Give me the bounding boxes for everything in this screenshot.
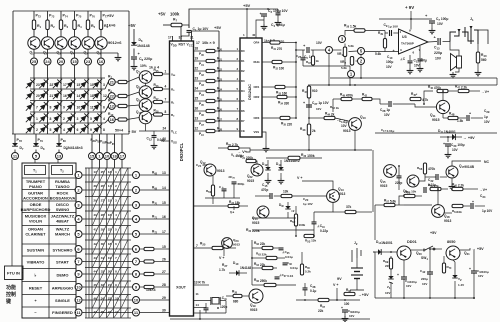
svg-text:9013: 9013 [217,169,225,173]
svg-text:V +: V + [333,283,339,287]
svg-text:1.4V: 1.4V [458,283,464,287]
svg-text:1: 1 [36,117,38,121]
node R8 [133,271,140,278]
transistor Q14 9015 left [257,206,269,218]
diode matrix r1c2 [37,77,51,91]
transistor Q13 9013 [327,190,340,203]
svg-text:ORGAN: ORGAN [28,226,43,231]
wire top +5V bus [13,10,129,12]
svg-text:VIOLIN: VIOLIN [29,219,42,224]
diode matrix r4c2 [37,111,51,125]
wire matrix bottom bus [12,133,129,135]
svg-text:+5V: +5V [243,3,251,8]
svg-text:1: 1 [165,70,167,74]
resistor R44 2k [324,116,335,119]
resistor R5 1k [86,20,89,30]
svg-text:24: 24 [195,87,199,91]
svg-text:12: 12 [76,297,81,302]
resistor ladder OR2 330 [277,95,287,98]
wire to C8 input [384,32,386,34]
wire +5V down [133,29,135,42]
svg-text:4BEAT: 4BEAT [56,219,69,224]
switch SW1 [411,249,422,251]
transistor Q20 regulator [397,246,411,260]
svg-text:MUSICBOX: MUSICBOX [25,213,47,218]
node 21 [108,79,115,86]
transistor Q18 9013 [432,205,445,218]
wire long bus y150 [250,149,372,151]
wire column 3 [60,11,62,37]
svg-text:功能: 功能 [6,284,16,291]
svg-text:10V: 10V [385,291,390,295]
resistor R28 680 [233,294,242,297]
svg-text:8: 8 [50,106,52,110]
resistor R3 1k [59,20,62,30]
resistor R6 1k [99,20,102,30]
diode matrix r2c5 [78,88,92,102]
node 25 [31,58,38,65]
svg-text:8: 8 [50,117,52,121]
svg-text:+ 5V: + 5V [128,129,137,134]
key row wires through grid [83,174,131,176]
svg-text:0.04μ: 0.04μ [290,266,298,270]
wire Q13 emitter down [314,202,333,212]
svg-text:3: 3 [103,83,105,87]
diode matrix r5c6 [91,122,105,136]
svg-text:CLARINET: CLARINET [25,232,46,237]
wire top-right bus [379,18,412,20]
node L6 [75,246,82,253]
svg-text:910: 910 [312,89,318,93]
svg-text:680: 680 [233,300,239,304]
resistor collector Q9 [151,101,154,103]
wire left rail to FTU [11,160,13,267]
svg-text:9: 9 [63,106,65,110]
resistor R4 1k [73,20,76,30]
capacitor C25 small [301,57,306,59]
node L2 [75,187,82,194]
wire matrix row 4 to node [105,120,108,124]
resistor R65 5.2k vertical [300,264,303,275]
wire Q8 collector to IC [163,88,170,90]
svg-text:1N4148×2: 1N4148×2 [284,159,300,163]
wire Q9 base from matrix [127,105,139,106]
svg-text:8: 8 [103,128,105,132]
caps below U3 [409,55,411,60]
svg-text:8: 8 [165,110,167,114]
resistor R59 67k [430,187,441,190]
wire VCC pin up [192,31,220,41]
svg-text:9015: 9015 [252,221,260,225]
diode matrix r1c1 [24,77,38,91]
resistor R53 [304,234,314,237]
svg-text:10V: 10V [316,107,321,111]
svg-text:470p: 470p [261,188,268,192]
node R5 [133,231,140,238]
svg-text:R62 22k: R62 22k [254,241,265,246]
svg-text:7: 7 [36,106,38,110]
svg-text:30: 30 [163,137,167,141]
wire P81 down [91,134,93,153]
resistor R52 100k vertical [294,214,297,226]
svg-text:9015: 9015 [432,118,440,122]
wire FTU rail [22,272,23,274]
ground Q17 [451,184,453,187]
svg-text:10k × 9: 10k × 9 [202,41,215,45]
capacitor C4 0.04u [268,8,278,10]
wire table to node [75,273,76,275]
function table outline [22,163,76,318]
transistor Q9 [139,99,152,112]
resistor R38 1.5k [354,29,365,32]
wire right edge vertical [496,78,498,85]
svg-text:→V+: →V+ [481,90,489,94]
resistor pull-up 9 [206,129,215,132]
svg-text:RHG: RHG [254,60,260,64]
wire jack to right edge [478,30,488,44]
svg-text:R31 270: R31 270 [271,46,282,51]
capacitor C1 1u 10V [187,30,192,32]
diode matrix r4c5 [78,111,92,125]
svg-text:17: 17 [120,153,125,158]
wire node to IC [140,218,170,220]
IC U1 pin P02 [194,70,207,72]
capacitor C5 1u coupling [296,49,305,51]
resistor R51 13k [281,194,292,197]
wire Q7 collector to IC [163,73,170,75]
wire node3 up to bus [345,31,354,36]
svg-text:1μ: 1μ [484,115,488,119]
svg-text:6: 6 [103,106,105,110]
node 4 [326,47,333,54]
resistor R54 37k [333,211,345,213]
svg-text:ACCORDION: ACCORDION [23,196,48,201]
transistor Q3 9012 [55,37,67,49]
svg-text:0.04μ: 0.04μ [285,255,293,259]
svg-text:13k: 13k [283,190,289,194]
transistor Q10 [139,111,152,124]
wire mesh BL extras [252,229,314,231]
capacitor C8 input [385,31,388,34]
svg-text:1.5k: 1.5k [457,119,463,123]
svg-text:24: 24 [45,59,50,64]
svg-text:1.7k: 1.7k [219,268,225,272]
IC pin 24 VLC [157,130,170,132]
diode matrix r1c5 [78,77,92,91]
svg-text:+: + [443,142,445,146]
IC U1 pin P03 [194,80,207,82]
svg-text:100k: 100k [299,223,306,227]
node R11 [133,309,140,316]
resistor R24 18k [228,204,239,207]
resistor R39 5.6k vertical [384,33,386,39]
svg-text:键: 键 [5,298,12,305]
wire bus y133 [375,132,497,134]
diode matrix r4c3 [51,111,65,125]
diode matrix r3c4 [64,99,78,113]
IC U1 pin P07 [194,120,207,122]
svg-text:120p: 120p [220,305,227,309]
wire node to resistor [115,105,118,107]
node L5 [75,231,82,238]
wire node to IC [140,286,144,288]
svg-text:⊥C: ⊥C [400,57,406,61]
svg-text:23: 23 [86,59,91,64]
ground emitter bus [117,55,119,58]
svg-text:13 R 7k: 13 R 7k [194,281,205,285]
wire node to resistor [115,81,118,83]
zener Z1 [388,276,393,279]
wire node to IC [140,273,144,275]
ground speaker [452,72,454,75]
table row lines [22,177,76,179]
diode matrix r4c6 [91,111,105,125]
svg-text:6: 6 [77,128,79,132]
wire table to node [75,233,76,235]
resistor R43 2k vertical [307,124,310,135]
svg-text:220: 220 [385,264,390,268]
wires bank to IC2 [236,50,240,52]
svg-text:+: + [341,306,343,310]
svg-text:SUSTAIN: SUSTAIN [27,247,44,252]
svg-text:24: 24 [163,127,167,131]
svg-text:D2: D2 [241,69,245,73]
svg-text:18: 18 [112,153,117,158]
svg-text:SYNCHRO: SYNCHRO [52,247,72,252]
svg-text:START: START [56,260,70,265]
svg-text:10V: 10V [384,113,391,117]
resistor R1 1k [32,20,35,30]
svg-text:D3: D3 [241,79,245,83]
node 22 [108,93,115,100]
resistor R56 470k vertical [423,163,426,174]
resistor R9 [118,104,127,107]
resistor ladder OR3 220 [280,116,290,119]
resistor R2 1k [46,20,49,30]
svg-text:9013: 9013 [233,243,240,247]
svg-text:20: 20 [36,94,40,98]
transistor Q11 9015 [436,100,449,113]
svg-text:680p: 680p [238,182,245,186]
svg-text:D1: D1 [241,59,245,63]
wire node to IC [140,299,170,301]
ground C6 [133,64,135,67]
svg-text:R44 2k: R44 2k [325,112,335,117]
wire node5 to op-amp [365,51,386,53]
svg-text:18: 18 [195,47,199,51]
wires N bus [252,247,262,249]
svg-text:5.2k: 5.2k [305,270,311,274]
node 24 [44,58,51,65]
svg-text:9013: 9013 [338,192,346,196]
diode matrix r3c1 [24,99,38,113]
svg-text:R47 2.2k: R47 2.2k [455,85,467,90]
svg-text:+: + [303,101,305,105]
svg-text:17: 17 [162,230,166,234]
svg-text:13: 13 [162,171,166,175]
svg-text:9015: 9015 [380,184,388,188]
resistor key row 6 [144,247,154,250]
VR1 wiper [349,50,358,53]
wire down [58,134,60,143]
svg-text:4: 4 [165,85,167,89]
svg-text:×2: ×2 [291,209,295,213]
transistor Q4 9012 [68,37,80,49]
wire P83 down [106,134,108,153]
IC U2 melody chip body [240,38,262,137]
svg-text:21: 21 [110,79,115,84]
resistor R46 470k feedback [437,89,448,92]
transistor Q15 9015 [384,165,397,178]
wire table to node [75,312,76,314]
transistor Q8 [139,86,152,99]
diode matrix r2c6 [91,88,105,102]
IC U1 pin P10 [194,130,207,132]
svg-text:100: 100 [344,302,350,306]
svg-text:V1 4MHz: V1 4MHz [231,153,244,158]
wire RST pin up [180,25,182,41]
svg-text:4: 4 [63,128,65,132]
resistor pull-up 3 [206,69,215,72]
svg-text:11: 11 [196,292,200,296]
svg-text:470k: 470k [428,167,435,171]
resistor R69 220 [390,256,392,258]
svg-text:12: 12 [103,94,107,98]
svg-text:NC: NC [484,160,489,164]
resistor pull-up 2 [206,59,215,62]
svg-text:♭: ♭ [35,272,37,277]
svg-text:OR1: OR1 [254,85,260,89]
diode matrix r2c3 [51,88,65,102]
wire node to IC [140,261,144,263]
wire node to IC [140,312,170,314]
svg-text:RESET: RESET [29,285,43,290]
vertical bus x373 [372,150,374,212]
wire node2 to VR2 [356,60,358,62]
svg-text:16: 16 [162,215,166,219]
svg-text:9V: 9V [337,277,342,281]
transistor Q19 9015 big [249,289,263,303]
wire Q8 base from matrix [127,92,139,96]
transistor Q16 [407,175,419,187]
svg-text:10k×4: 10k×4 [146,288,156,292]
resistor R60 2.2k [452,187,463,190]
svg-text:0.22μ: 0.22μ [320,229,328,233]
svg-text:CE: CE [241,129,245,133]
svg-text:ARPEGGIO: ARPEGGIO [52,285,74,290]
node R10 [133,297,140,304]
IC U1 pin P04 [194,90,207,92]
node 5 [33,153,40,160]
FTU IN box [5,266,24,280]
svg-text:FTU IN: FTU IN [7,271,20,276]
diode matrix r1c3 [51,77,65,91]
svg-text:→ +9V: → +9V [463,136,475,140]
output capacitor C13 220u [428,41,437,44]
svg-text:10V: 10V [406,284,411,288]
wire table to node [75,261,76,263]
svg-text:+5V: +5V [128,23,136,28]
diode matrix r4c4 [64,111,78,125]
svg-text:RUMBA: RUMBA [55,179,70,184]
svg-text:SWING: SWING [56,207,70,212]
wire Q10 collector to IC [163,114,170,116]
svg-text:D6: D6 [241,109,245,113]
svg-text:R49 470k: R49 470k [340,93,353,98]
resistor R40 560 [477,44,479,52]
svg-text:20: 20 [59,59,64,64]
resistor pull-up 7 [206,109,215,112]
wire P82 down [99,134,101,153]
zener V2 1.4V [452,275,457,278]
svg-text:10: 10 [77,106,81,110]
svg-text:28: 28 [162,283,166,287]
svg-text:HARPSICHORD: HARPSICHORD [21,207,51,212]
diode D9 [56,143,62,146]
svg-text:+ 9V: + 9V [405,5,414,10]
IC U1 microcontroller body [170,41,194,316]
node 10 [104,153,111,160]
wire to bus [215,50,236,52]
wire column 2 [47,11,49,37]
node 5 [358,48,365,55]
wire table to node [75,286,76,288]
svg-text:10V: 10V [435,57,442,61]
wire Q emitters to +5V rail [145,83,147,85]
svg-text:17: 17 [196,41,200,45]
svg-text:TRUMPET: TRUMPET [26,179,46,184]
svg-text:10: 10 [76,284,81,289]
svg-text:22: 22 [50,83,54,87]
svg-text:0.1μ: 0.1μ [310,289,316,293]
svg-text:560: 560 [481,58,487,62]
node L9 [75,271,82,278]
svg-text:VSS: VSS [254,130,260,134]
svg-text:1N4148×3: 1N4148×3 [66,146,83,150]
svg-text:22: 22 [195,67,199,71]
wire local bus y198 [205,197,240,199]
diode matrix r3c5 [78,99,92,113]
svg-text:OR2: OR2 [254,95,260,99]
svg-text:220μ: 220μ [421,277,428,281]
svg-text:23: 23 [195,77,199,81]
wire to bus [215,70,236,72]
node 12 [108,103,115,110]
ground C12 [153,143,155,146]
svg-text:17: 17 [63,83,67,87]
svg-text:ROCK: ROCK [57,190,69,195]
wire top bus to C1 [189,9,268,28]
svg-text:→+5V: →+5V [358,293,369,297]
svg-text:15: 15 [195,97,199,101]
node 16 [98,58,105,65]
diode matrix r2c4 [64,88,78,102]
svg-text:OR4: OR4 [254,41,260,45]
resistor pull-up 4 [206,79,215,82]
diode matrix r3c3 [51,99,65,113]
wire Q10 base from matrix [127,118,139,120]
IC U1 pin P00 [194,50,207,52]
wire table to node [75,189,76,191]
node R4 [133,216,140,223]
ground C4 [277,20,279,23]
wire down [14,134,16,143]
wire node4 down to bus [328,54,330,86]
wire to bus [215,130,236,132]
wire to bus [215,120,236,122]
capacitor C26 6800p [232,181,237,183]
wire matrix row 1 to node [105,82,108,89]
